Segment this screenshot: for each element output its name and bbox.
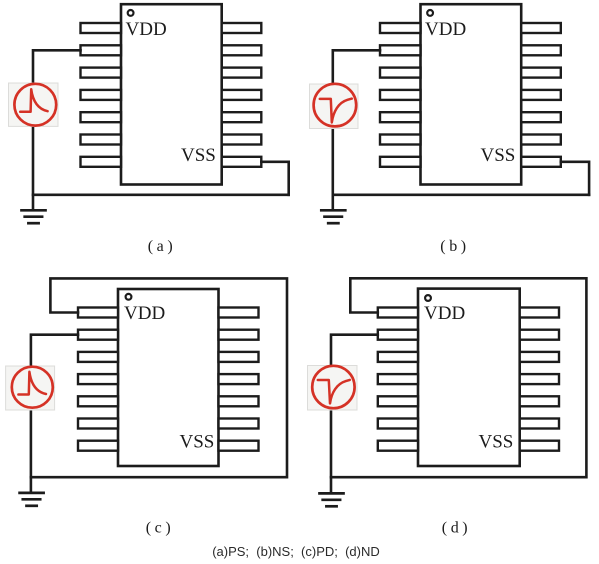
IC chip U_d body	[418, 289, 520, 466]
right pins U_c (7)	[219, 308, 259, 451]
wire source-c to pin2	[31, 335, 78, 367]
ground symbol a	[22, 210, 46, 223]
wire source-a to pin2	[33, 50, 81, 83]
wire source-b to pin2	[333, 50, 380, 83]
svg-text:VSS: VSS	[180, 432, 215, 453]
negative pulse waveform b	[320, 99, 352, 123]
svg-text:VDD: VDD	[126, 19, 167, 40]
ground symbol d	[320, 493, 344, 506]
wire source-d bottom to ground	[330, 409, 333, 493]
svg-text:(b): (b)	[440, 238, 469, 255]
wire bottom rail b	[333, 194, 589, 197]
grey box behind source a	[9, 83, 59, 126]
positive pulse waveform c	[18, 372, 46, 395]
pin-1 marker dot U_b	[427, 10, 433, 16]
right pins U_b (7)	[521, 23, 561, 167]
svg-text:(a): (a)	[148, 238, 177, 255]
ground symbol b	[321, 210, 345, 223]
pin-1 marker dot U_d	[425, 295, 431, 301]
left pins U_d (7)	[378, 308, 418, 451]
right pins U_a (7)	[222, 23, 262, 167]
pulse source PSc circle	[12, 367, 53, 408]
left pins U_c (7)	[78, 308, 118, 451]
left pins U_a (7)	[81, 23, 122, 167]
positive pulse waveform a	[20, 89, 47, 112]
pin-1 marker dot U_a	[128, 10, 134, 16]
svg-text:VDD: VDD	[425, 19, 466, 40]
svg-text:(d): (d)	[442, 519, 471, 536]
pulse source PSd circle	[312, 366, 354, 408]
wire VSS pin to bottom rail b	[561, 162, 589, 195]
wire VSS pin to bottom rail a	[261, 162, 288, 195]
grey box behind source c	[6, 366, 55, 410]
right pins U_d (7)	[520, 308, 559, 451]
grey box behind source d	[308, 366, 358, 411]
wire bottom rail a	[33, 194, 289, 197]
svg-text:(c): (c)	[146, 519, 175, 536]
negative pulse waveform d	[318, 380, 350, 404]
svg-text:VSS: VSS	[481, 145, 516, 166]
wire source-d to pin2	[331, 335, 378, 366]
left pins U_b (7)	[380, 23, 421, 167]
grey box behind source b	[310, 84, 359, 129]
wire source-a bottom to ground	[32, 126, 35, 209]
svg-text:VSS: VSS	[479, 432, 514, 453]
wire source-c bottom to ground	[30, 408, 33, 492]
IC chip U_a body	[121, 4, 222, 184]
svg-text:VDD: VDD	[124, 303, 165, 324]
IC chip U_b body	[421, 4, 522, 184]
ground symbol c	[20, 493, 44, 506]
pulse source PSb circle	[314, 84, 357, 127]
VDD loop wire c : pin1 to top rail to right rail to bottom rail	[31, 278, 287, 477]
VDD loop wire d : pin1 to top rail to right rail to bottom rail	[331, 278, 586, 477]
svg-text:VSS: VSS	[181, 145, 216, 166]
pulse source PSa circle	[14, 84, 56, 126]
IC chip U_c body	[118, 289, 219, 466]
pin-1 marker dot U_c	[126, 294, 132, 300]
svg-text:(a)PS; (b)NS; (c)PD; (d)ND: (a)PS; (b)NS; (c)PD; (d)ND	[212, 544, 380, 559]
svg-text:VDD: VDD	[424, 303, 465, 324]
wire source-b bottom to ground	[331, 126, 334, 209]
